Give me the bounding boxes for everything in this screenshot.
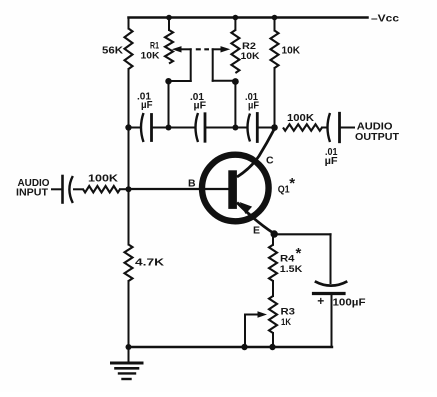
svg-text:10K: 10K	[241, 51, 260, 62]
capacitor C5 (input coupling)	[61, 176, 64, 203]
svg-text:INPUT: INPUT	[16, 187, 49, 199]
capacitor C2 .01uF	[196, 113, 199, 142]
wire C1 to junction 2	[153, 127, 169, 129]
svg-text:B: B	[188, 178, 196, 190]
node A junction (left, cap row)	[125, 124, 131, 130]
svg-text:µF: µF	[141, 100, 153, 111]
resistor 100K (input)	[83, 186, 120, 192]
resistor 100K (output)	[283, 124, 322, 130]
wire node A down to input node	[128, 128, 130, 190]
wiper arm R1 (arrow and return loop)	[180, 48, 191, 50]
ground	[128, 347, 130, 363]
svg-text:Q1: Q1	[278, 184, 290, 196]
capacitor C4 .01uF (output coupling)	[328, 113, 331, 142]
node R2 bottom junction	[232, 78, 239, 85]
node R3 wiper return junction	[241, 344, 247, 350]
potentiometer R3 1K	[269, 296, 277, 333]
svg-text:E: E	[253, 225, 260, 237]
potentiometer R1 10K	[165, 30, 173, 64]
resistor R4 1.5K	[272, 234, 274, 245]
svg-text:µF: µF	[325, 156, 338, 167]
svg-text:1.5K: 1.5K	[280, 264, 303, 275]
svg-text:–Vcc: –Vcc	[371, 13, 399, 25]
svg-text:*: *	[289, 175, 295, 192]
wire rail to R1	[168, 18, 170, 31]
emitter lead with PNP arrow	[237, 203, 274, 234]
node input junction	[126, 186, 132, 192]
wire down to 100uF top	[330, 234, 332, 283]
svg-text:µF: µF	[248, 101, 259, 112]
resistor 10K (collector load)	[271, 31, 279, 69]
wire rail to 10K	[274, 18, 276, 31]
wire node A to C1	[129, 127, 140, 129]
svg-text:C: C	[266, 155, 274, 167]
wire input node to base	[129, 188, 229, 190]
svg-text:56K: 56K	[102, 45, 123, 57]
wire 100uF bottom to rail	[331, 295, 333, 347]
svg-text:R3: R3	[281, 307, 296, 318]
wire R3 bottom to rail	[272, 333, 274, 347]
wire 100K to C4	[322, 127, 326, 129]
svg-text:1K: 1K	[281, 317, 291, 328]
dashed mechanical gang link R1-R2	[196, 48, 209, 50]
node collector junction	[271, 124, 278, 131]
wire junction 2 to C2	[169, 127, 195, 129]
wire C5 to 100K input	[74, 188, 83, 190]
svg-text:10K: 10K	[141, 51, 160, 62]
node ground junction	[126, 344, 132, 350]
transistor Q1 body circle	[202, 155, 269, 222]
wiper arm R2 (arrow and return loop)	[213, 48, 221, 50]
resistor 4.7K	[125, 245, 133, 282]
node R3 bottom junction	[269, 344, 275, 350]
node R2 top junction	[233, 15, 239, 21]
wire C4 to output terminal	[341, 127, 354, 129]
wire emitter node to cap branch	[274, 233, 330, 235]
node cap-row junction 3	[232, 125, 238, 131]
svg-text:100K: 100K	[287, 112, 314, 124]
wire C2 to junction 3	[206, 127, 235, 129]
svg-text:10K: 10K	[282, 44, 301, 56]
capacitor 100uF electrolytic	[315, 281, 348, 285]
wire rail to R2	[234, 18, 236, 31]
svg-text:OUTPUT: OUTPUT	[355, 131, 400, 143]
wire R1 bottom to cap row	[168, 81, 170, 127]
capacitor C3 .01uF	[248, 114, 251, 142]
wire top-left corner down to 56K	[128, 18, 130, 29]
transistor Q1 base bar	[228, 170, 237, 209]
node emitter junction	[271, 230, 278, 237]
svg-text:100µF: 100µF	[333, 297, 367, 309]
node R1 top junction	[166, 15, 172, 21]
wire 4.7K bottom to ground node	[128, 281, 130, 347]
wire 10K bottom to collector node	[274, 68, 276, 128]
svg-text:*: *	[296, 245, 302, 262]
svg-text:R4: R4	[280, 254, 295, 265]
collector lead	[237, 129, 274, 177]
node 10K top junction	[272, 15, 278, 21]
node cap-row junction 2	[166, 125, 172, 131]
wire R2 bottom to cap row	[234, 82, 236, 128]
wire junction 3 to C3	[235, 127, 245, 129]
wire input terminal to C5	[52, 188, 62, 190]
svg-text:µF: µF	[194, 101, 207, 112]
wire bottom ground rail	[129, 346, 333, 348]
wire R4 to R3	[272, 281, 274, 296]
wire input node down to 4.7K	[128, 189, 130, 244]
node R1 bottom junction	[165, 78, 171, 84]
potentiometer R2 10K	[231, 30, 239, 73]
wire Vcc rail (top horizontal)	[129, 16, 368, 19]
svg-text:+: +	[317, 294, 324, 308]
wire 56K bottom to node A	[128, 69, 130, 127]
resistor 56K	[125, 29, 133, 70]
capacitor C1 .01uF	[141, 113, 144, 142]
svg-text:100K: 100K	[88, 173, 118, 185]
wire C3 to collector node	[258, 127, 274, 129]
wire 100K to input node	[120, 188, 129, 190]
wiper arm R3	[245, 314, 258, 316]
svg-text:4.7K: 4.7K	[135, 257, 165, 269]
